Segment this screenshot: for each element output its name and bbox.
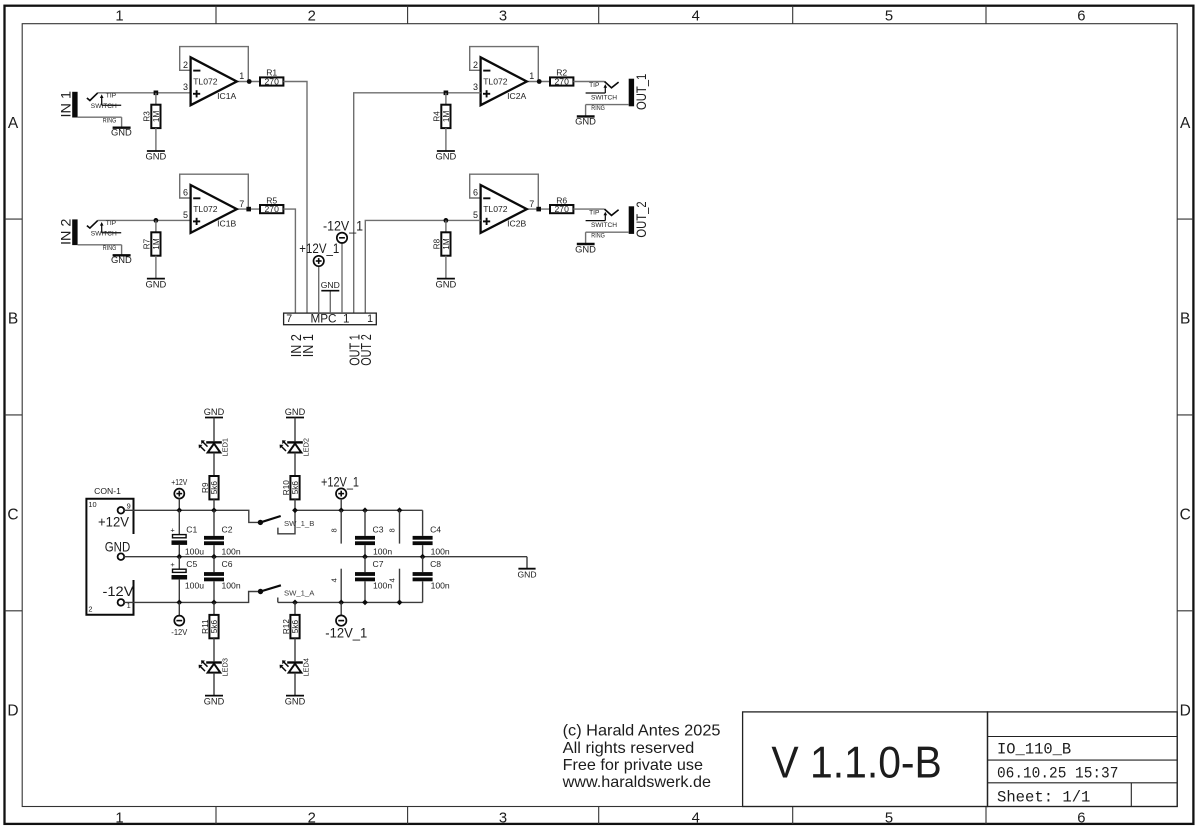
svg-text:1: 1 (115, 8, 123, 24)
svg-text:IO_110_B: IO_110_B (997, 740, 1071, 758)
svg-text:4: 4 (388, 578, 397, 582)
svg-text:2: 2 (183, 60, 188, 70)
svg-text:GND: GND (575, 243, 596, 254)
svg-text:GND: GND (111, 127, 132, 138)
svg-text:Free for private use: Free for private use (563, 757, 704, 774)
svg-text:1M: 1M (152, 111, 161, 123)
svg-text:5: 5 (885, 811, 893, 827)
svg-text:TIP: TIP (106, 93, 117, 100)
svg-text:R3: R3 (143, 111, 152, 122)
svg-text:IN 1: IN 1 (58, 91, 74, 118)
svg-text:A: A (8, 115, 19, 132)
svg-text:6: 6 (1077, 8, 1085, 24)
svg-text:TL072: TL072 (483, 76, 508, 86)
svg-text:4: 4 (692, 8, 700, 24)
svg-text:RING: RING (591, 105, 605, 112)
svg-text:GND: GND (435, 278, 456, 289)
svg-text:SWITCH: SWITCH (591, 94, 617, 101)
svg-text:R7: R7 (143, 238, 152, 249)
svg-text:GND: GND (285, 696, 306, 706)
svg-text:TIP: TIP (589, 82, 600, 89)
svg-text:+12V_1: +12V_1 (299, 241, 339, 256)
svg-text:C6: C6 (222, 559, 233, 569)
svg-text:GND: GND (145, 278, 166, 289)
svg-text:TIP: TIP (589, 210, 600, 217)
svg-text:100u: 100u (185, 547, 204, 557)
svg-text:(c) Harald Antes 2025: (c) Harald Antes 2025 (563, 723, 721, 740)
svg-text:D: D (7, 702, 18, 719)
svg-text:RING: RING (591, 233, 605, 240)
svg-text:GND: GND (517, 569, 536, 579)
svg-text:5k6: 5k6 (291, 481, 300, 495)
svg-text:2: 2 (308, 8, 316, 24)
svg-text:B: B (8, 311, 18, 328)
svg-text:06.10.25 15:37: 06.10.25 15:37 (997, 765, 1118, 783)
svg-text:C: C (7, 507, 18, 524)
svg-text:IN 1: IN 1 (301, 334, 317, 357)
svg-text:3: 3 (183, 82, 188, 92)
svg-text:C: C (1180, 507, 1191, 524)
svg-text:SWITCH: SWITCH (91, 103, 117, 110)
svg-text:CON-1: CON-1 (94, 486, 121, 496)
svg-text:-12V: -12V (171, 628, 188, 637)
svg-text:IN 2: IN 2 (58, 218, 74, 245)
svg-text:SW_1_A: SW_1_A (284, 589, 315, 598)
svg-text:IC2A: IC2A (507, 91, 526, 101)
svg-text:1M: 1M (442, 238, 451, 250)
svg-text:V 1.1.0-B: V 1.1.0-B (771, 739, 942, 788)
svg-text:2: 2 (473, 60, 478, 70)
svg-text:8: 8 (329, 528, 338, 532)
svg-text:1: 1 (367, 313, 373, 325)
svg-text:100n: 100n (431, 580, 450, 590)
svg-text:C8: C8 (430, 559, 441, 569)
svg-text:GND: GND (145, 151, 166, 162)
svg-text:C7: C7 (373, 559, 384, 569)
svg-text:OUT_1: OUT_1 (633, 74, 649, 110)
svg-text:7: 7 (239, 199, 244, 209)
svg-text:RING: RING (103, 245, 117, 252)
svg-text:R12: R12 (282, 619, 291, 634)
svg-text:+: + (170, 526, 174, 535)
svg-text:TL072: TL072 (483, 204, 508, 214)
svg-text:GND: GND (204, 407, 225, 417)
svg-text:100u: 100u (185, 580, 204, 590)
svg-text:7: 7 (529, 199, 534, 209)
svg-text:270: 270 (265, 77, 280, 87)
svg-text:4: 4 (692, 811, 700, 827)
svg-text:C5: C5 (186, 559, 197, 569)
svg-text:5: 5 (473, 210, 478, 220)
svg-text:GND: GND (435, 151, 456, 162)
svg-text:1: 1 (529, 71, 534, 81)
svg-text:3: 3 (473, 82, 478, 92)
svg-text:D: D (1180, 702, 1191, 719)
svg-text:R9: R9 (201, 482, 210, 493)
svg-text:Sheet: 1/1: Sheet: 1/1 (997, 789, 1090, 807)
svg-text:+12V: +12V (171, 478, 188, 487)
svg-text:100n: 100n (222, 580, 241, 590)
svg-text:1: 1 (239, 71, 244, 81)
svg-text:GND: GND (321, 280, 340, 290)
svg-text:8: 8 (388, 528, 397, 532)
svg-text:OUT 2: OUT 2 (359, 334, 375, 366)
svg-text:IC1A: IC1A (217, 91, 236, 101)
svg-text:LED3: LED3 (221, 658, 230, 677)
svg-text:9: 9 (127, 502, 131, 511)
svg-text:10: 10 (88, 500, 96, 509)
svg-text:www.haraldswerk.de: www.haraldswerk.de (562, 774, 712, 791)
svg-text:6: 6 (473, 188, 478, 198)
svg-text:+12V_1: +12V_1 (321, 475, 359, 490)
svg-text:6: 6 (1077, 811, 1085, 827)
svg-text:GND: GND (111, 254, 132, 265)
svg-text:2: 2 (308, 811, 316, 827)
svg-text:100n: 100n (373, 547, 392, 557)
svg-text:GND: GND (105, 539, 131, 555)
svg-text:GND: GND (285, 407, 306, 417)
svg-text:OUT_2: OUT_2 (633, 201, 649, 237)
svg-text:R10: R10 (282, 480, 291, 495)
svg-text:6: 6 (183, 188, 188, 198)
svg-text:R8: R8 (433, 238, 442, 249)
svg-text:-12V_1: -12V_1 (325, 626, 367, 641)
svg-text:LED4: LED4 (302, 658, 311, 677)
svg-text:+: + (170, 560, 174, 569)
svg-text:C2: C2 (222, 525, 233, 535)
svg-text:+12V: +12V (98, 513, 130, 529)
svg-text:LED2: LED2 (302, 438, 311, 457)
svg-text:TL072: TL072 (193, 76, 218, 86)
svg-text:5: 5 (183, 210, 188, 220)
svg-text:C4: C4 (430, 525, 441, 535)
svg-text:5k6: 5k6 (291, 620, 300, 634)
svg-text:7: 7 (286, 313, 292, 325)
svg-text:All rights reserved: All rights reserved (563, 740, 695, 757)
svg-text:100n: 100n (222, 547, 241, 557)
svg-text:IC1B: IC1B (217, 219, 236, 229)
svg-text:1: 1 (115, 811, 123, 827)
svg-text:GND: GND (575, 116, 596, 127)
svg-text:4: 4 (329, 578, 338, 582)
svg-text:270: 270 (555, 77, 570, 87)
svg-text:TL072: TL072 (193, 204, 218, 214)
svg-text:3: 3 (499, 811, 507, 827)
svg-text:RING: RING (103, 118, 117, 125)
svg-text:1M: 1M (152, 238, 161, 250)
svg-text:MPC_1: MPC_1 (311, 311, 350, 325)
svg-text:R11: R11 (201, 619, 210, 634)
svg-text:-12V_1: -12V_1 (323, 218, 363, 233)
svg-text:C3: C3 (373, 525, 384, 535)
svg-text:SW_1_B: SW_1_B (284, 519, 314, 528)
svg-text:R4: R4 (433, 111, 442, 122)
svg-text:C1: C1 (186, 525, 197, 535)
svg-text:1M: 1M (442, 111, 451, 123)
svg-text:270: 270 (555, 204, 570, 214)
svg-text:SWITCH: SWITCH (591, 222, 617, 229)
svg-text:A: A (1180, 115, 1191, 132)
svg-text:LED1: LED1 (221, 438, 230, 457)
svg-text:IC2B: IC2B (507, 219, 526, 229)
svg-text:GND: GND (204, 696, 225, 706)
svg-text:100n: 100n (431, 547, 450, 557)
svg-text:2: 2 (88, 605, 92, 614)
svg-text:270: 270 (265, 204, 280, 214)
svg-text:5k6: 5k6 (210, 620, 219, 634)
svg-text:5k6: 5k6 (210, 481, 219, 495)
svg-text:SWITCH: SWITCH (91, 231, 117, 238)
svg-text:5: 5 (885, 8, 893, 24)
svg-text:B: B (1180, 311, 1190, 328)
svg-text:TIP: TIP (106, 220, 117, 227)
svg-text:-12V: -12V (103, 583, 135, 599)
svg-text:3: 3 (499, 8, 507, 24)
